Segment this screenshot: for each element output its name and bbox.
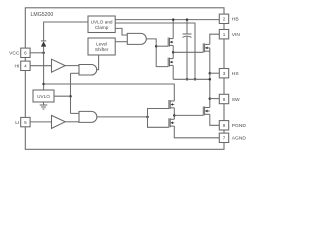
pin HB — [219, 14, 228, 23]
svg-text:HI: HI — [14, 64, 19, 70]
svg-text:9: 9 — [223, 123, 226, 128]
wire midpoint to HS FET gate — [173, 51, 203, 53]
pin PGND — [219, 121, 228, 130]
wire U3 output up to Level Shifter — [97, 55, 99, 70]
svg-text:VCC: VCC — [9, 51, 20, 57]
wire Level Shifter to AND U2 — [115, 41, 127, 43]
AND gate U4 (LI input) — [79, 111, 97, 122]
pin HI — [21, 61, 30, 70]
svg-text:5: 5 — [24, 120, 27, 125]
wire Q4 source to AGND rail — [174, 126, 219, 138]
wire HS pin — [210, 72, 220, 74]
wire VCC rail down to UVLO box — [43, 53, 45, 90]
transistor Q2 lower high-side driver — [168, 58, 173, 67]
diode bootstrap D1 — [41, 41, 46, 46]
wire LS driver midpoint — [173, 108, 175, 120]
svg-text:1: 1 — [223, 32, 226, 37]
svg-text:8: 8 — [223, 97, 226, 102]
wire HB rail to pin HB — [115, 19, 219, 21]
node VCC rail junction — [42, 83, 45, 86]
svg-text:2: 2 — [223, 17, 226, 22]
node HS rail tap — [209, 78, 212, 81]
UVLO block — [33, 90, 54, 102]
wire Q2 source to HS rail — [172, 65, 174, 79]
wire VCC to bootstrap node — [30, 52, 43, 54]
wire diode cathode up and right to UVLO and Clamp — [44, 22, 88, 41]
svg-text:UVLO and: UVLO and — [91, 19, 113, 24]
transistor Q6 low-side GaN FET — [203, 107, 210, 116]
wire upper driver gate — [156, 45, 168, 47]
node gate line junction — [155, 45, 158, 48]
buffer LI — [52, 115, 66, 128]
svg-text:UVLO: UVLO — [37, 94, 50, 99]
svg-text:LI: LI — [15, 120, 19, 126]
wire Q1 drain to HB rail — [172, 20, 174, 39]
transistor Q3 upper low-side driver — [169, 100, 174, 109]
UVLO and Clamp block — [88, 16, 115, 33]
svg-text:SW: SW — [232, 97, 240, 103]
wire U4 output to gate staircase — [97, 116, 148, 118]
svg-text:6: 6 — [24, 51, 27, 56]
wire U2 output to gate line — [146, 39, 168, 67]
wire clamp output to HS rail — [115, 23, 195, 79]
HS rail — [173, 78, 210, 80]
svg-text:PGND: PGND — [232, 123, 247, 129]
svg-text:3: 3 — [223, 71, 226, 76]
svg-text:Level: Level — [96, 41, 107, 46]
wire LI to buffer — [30, 121, 51, 123]
wire staircase to driver gates — [148, 109, 169, 128]
wire VCC rail to low-side driver — [44, 84, 175, 101]
node UVLO output junction — [69, 95, 72, 98]
pin AGND — [219, 133, 228, 142]
svg-text:HB: HB — [232, 17, 239, 23]
IC outline LMG5200 — [25, 8, 224, 150]
wire driver midpoint — [172, 45, 174, 58]
buffer HI — [52, 59, 66, 72]
wire midpoint to LS FET gate — [174, 114, 203, 116]
wire SW pin — [210, 98, 220, 100]
ground — [43, 102, 45, 105]
wire bootstrap vertical below diode — [43, 47, 45, 53]
svg-text:Shifter: Shifter — [95, 47, 109, 52]
wire buffer to AND U3 — [65, 65, 79, 67]
node SW tap — [209, 97, 212, 100]
capacitor C1 bootstrap — [186, 20, 188, 34]
pin SW — [219, 94, 228, 103]
wire Q5 source down switch node — [209, 48, 211, 108]
pin LI — [21, 117, 30, 126]
svg-text:4: 4 — [24, 64, 27, 69]
svg-text:Clamp: Clamp — [95, 25, 109, 30]
wire UVLO-OK to U4 — [71, 112, 80, 114]
node VCC junction — [42, 52, 45, 55]
wire VIN to Q5 drain — [210, 34, 220, 44]
wire UVLO-OK to AND U2 — [115, 28, 127, 35]
svg-text:7: 7 — [223, 136, 226, 141]
wire UVLO output — [54, 95, 71, 97]
svg-text:VIN: VIN — [232, 32, 241, 38]
svg-text:LMG5200: LMG5200 — [31, 12, 54, 18]
wire buffer to AND U4 — [65, 121, 79, 123]
pin HS — [219, 69, 228, 78]
wire HI to buffer — [30, 65, 51, 67]
pin VIN — [219, 30, 228, 39]
svg-text:HS: HS — [232, 71, 240, 77]
transistor Q5 high-side GaN FET — [203, 43, 210, 52]
node staircase junction — [146, 116, 149, 119]
pin VCC — [21, 48, 30, 57]
AND gate U2 (high side) — [127, 33, 146, 44]
AND gate U3 (HI input) — [79, 65, 97, 76]
transistor Q4 lower low-side driver — [169, 118, 174, 127]
wire Q6 source to PGND — [210, 114, 220, 125]
transistor Q1 upper high-side driver — [168, 38, 173, 47]
svg-text:AGND: AGND — [232, 136, 247, 142]
node HS tap — [209, 72, 212, 75]
Level Shifter block — [88, 38, 115, 55]
wire UVLO-OK to U3 — [70, 73, 72, 113]
